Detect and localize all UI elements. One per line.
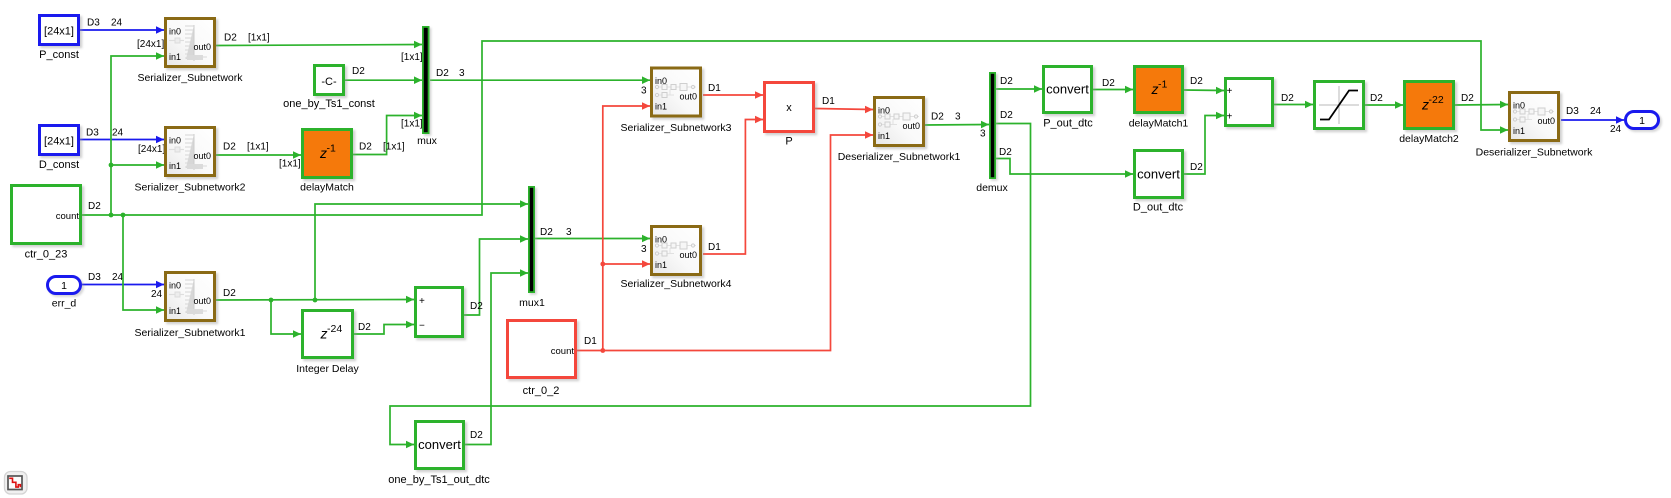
label D2 on wire Serializer_Subnetwork1 out — [223, 288, 236, 299]
svg-text:24: 24 — [112, 272, 124, 283]
wire delayMatch out to mux in2 (D2 [1x1]) — [353, 112, 422, 155]
junction dot Serializer_Subnetwork1 out net at x=271 — [269, 298, 274, 303]
convert block D_out_dtc — [1133, 151, 1186, 214]
svg-text:Serializer_Subnetwork: Serializer_Subnetwork — [137, 72, 243, 84]
wire branch ctr_0_23 net down to Serializer_Subnetwork1 in1 — [123, 215, 164, 314]
svg-text:D3: D3 — [1566, 106, 1579, 117]
svg-text:D2: D2 — [224, 33, 237, 44]
label D2 on wire Integer Delay out — [358, 322, 371, 333]
label 3 on wire mux out — [459, 68, 465, 79]
wire D_const to Serializer_Subnetwork2 in0 (D3, width 24) — [80, 136, 164, 144]
svg-text:D2: D2 — [1000, 110, 1013, 121]
wire branch ctr_0_23 net to Serializer_Subnetwork in1 and Serializer_Subnetwork2 in1 — [111, 52, 164, 215]
svg-text:one_by_Ts1_out_dtc: one_by_Ts1_out_dtc — [388, 474, 490, 486]
svg-text:x: x — [786, 102, 792, 114]
svg-text:in0: in0 — [169, 281, 181, 291]
svg-text:−: − — [419, 321, 425, 332]
convert block one_by_Ts1_out_dtc — [388, 422, 490, 487]
svg-text:[1x1]: [1x1] — [248, 33, 270, 44]
constant block one_by_Ts1_const -C- — [283, 66, 375, 111]
svg-text:ctr_0_2: ctr_0_2 — [523, 385, 560, 397]
wire D_out_dtc out up to Sum2 in2 (D2) — [1184, 112, 1224, 174]
wire branch Serializer_Subnetwork1 out up to mux1 in0 — [315, 200, 528, 300]
svg-text:D2: D2 — [1281, 93, 1294, 104]
svg-text:D2: D2 — [223, 288, 236, 299]
label [1x1] on wire delayMatch out — [383, 142, 405, 153]
wire err_d to Serializer_Subnetwork1 in0 (D3, width 24) — [82, 281, 164, 289]
wire P_const to Serializer_Subnetwork in0 (D3, width 24) — [80, 26, 164, 34]
label D2 on wire D_out_dtc out — [1190, 162, 1203, 173]
svg-text:in1: in1 — [169, 161, 181, 171]
svg-text:D2: D2 — [1000, 76, 1013, 87]
mux block mux1 — [519, 186, 545, 309]
label D3 on wire Deserializer_Subnetwork out — [1566, 106, 1579, 117]
wire Deserializer_Subnetwork1 out0 to demux in (D2 width 3) — [924, 121, 989, 129]
svg-text:count: count — [551, 346, 575, 357]
subsystem Serializer_Subnetwork2 — [135, 128, 246, 194]
svg-text:[24x1]: [24x1] — [137, 39, 164, 50]
svg-text:+: + — [419, 296, 425, 307]
convert block P_out_dtc — [1043, 67, 1095, 130]
svg-text:mux1: mux1 — [519, 297, 545, 309]
sum block Sum1 plus minus — [416, 288, 467, 341]
wire Saturation out to delayMatch2 in (D2) — [1365, 101, 1403, 109]
svg-text:D1: D1 — [708, 83, 721, 94]
counter block ctr_0_2 — [508, 321, 580, 398]
label 3 below wire near Serializer_Subnetwork4 in0 — [641, 244, 647, 255]
svg-text:D1: D1 — [822, 96, 835, 107]
output port 1 — [1626, 112, 1663, 133]
svg-text:-1: -1 — [1158, 79, 1167, 91]
svg-text:D2: D2 — [359, 142, 372, 153]
wire Serializer_Subnetwork4 out0 up to P in1 (D1) — [703, 116, 763, 254]
svg-text:Serializer_Subnetwork3: Serializer_Subnetwork3 — [621, 122, 732, 134]
wire one_by_Ts1_out_dtc convert out up to mux1 in2 (D2) — [465, 269, 528, 444]
label 3 below wire near demux in — [980, 129, 986, 140]
svg-text:+: + — [1227, 86, 1233, 97]
svg-text:in0: in0 — [655, 235, 667, 245]
junction dot ctr_0_23 net at x=123 — [121, 213, 126, 218]
label 24 below wire near output port — [1610, 124, 1622, 135]
svg-text:-24: -24 — [327, 323, 342, 335]
svg-text:D2: D2 — [1190, 76, 1203, 87]
input port err_d — [48, 277, 85, 310]
svg-text:delayMatch1: delayMatch1 — [1129, 118, 1189, 130]
label D2 on wire mux out — [436, 68, 449, 79]
svg-text:[1x1]: [1x1] — [247, 142, 269, 153]
svg-text:D2: D2 — [1461, 93, 1474, 104]
svg-text:1: 1 — [1639, 115, 1645, 127]
svg-text:D1: D1 — [584, 336, 597, 347]
label D2 on wire demux out3 — [999, 147, 1012, 158]
svg-text:[1x1]: [1x1] — [401, 119, 423, 130]
svg-text:convert: convert — [1046, 82, 1089, 97]
constant block D_const [24x1] — [39, 126, 82, 172]
svg-text:D2: D2 — [470, 301, 483, 312]
wire P_out_dtc out to delayMatch1 in (D2) — [1093, 86, 1133, 94]
svg-text:D2: D2 — [1370, 93, 1383, 104]
wire Serializer_Subnetwork out0 to mux in0 (D2 [1x1]) — [216, 41, 422, 49]
saturation block — [1315, 82, 1368, 133]
sample time legend badge — [5, 472, 28, 495]
label [1x1] below wire near mux in2 — [401, 119, 423, 130]
svg-text:Deserializer_Subnetwork: Deserializer_Subnetwork — [1476, 147, 1593, 159]
label D2 on wire delayMatch1 out — [1190, 76, 1203, 87]
wire ctr_0_23 count out, long net up and across to Deserializer_Subnetwork in1 — [82, 41, 1508, 215]
wire ctr_0_2 count out to Deserializer_Subnetwork1 in1 (D1) — [577, 131, 873, 350]
delay block delayMatch z^-1 — [300, 130, 355, 194]
label D2 on wire mux1 out — [540, 227, 553, 238]
label D1 on wire Serializer_Subnetwork3 out — [708, 83, 721, 94]
svg-text:D2: D2 — [999, 147, 1012, 158]
wire delayMatch1 out to Sum2 in1 (D2) — [1184, 87, 1224, 95]
svg-text:delayMatch2: delayMatch2 — [1399, 133, 1459, 145]
svg-text:Serializer_Subnetwork4: Serializer_Subnetwork4 — [621, 278, 732, 290]
label D1 on wire ctr_0_2 out — [584, 336, 597, 347]
svg-text:D1: D1 — [708, 242, 721, 253]
label [24x1] below wire D_const — [138, 144, 165, 155]
svg-text:3: 3 — [641, 244, 647, 255]
product block P (x) — [765, 83, 818, 148]
wire P out to Deserializer_Subnetwork1 in0 (D1) — [815, 106, 873, 114]
label 24 on wire Deserializer_Subnetwork out — [1590, 106, 1602, 117]
wire one_by_Ts1_const to mux in1 (D2) — [345, 76, 422, 84]
svg-text:delayMatch: delayMatch — [300, 182, 354, 194]
svg-text:P_const: P_const — [39, 49, 79, 61]
svg-text:[24x1]: [24x1] — [44, 136, 74, 148]
wire Integer Delay out to Sum1 minus input (D2) — [354, 321, 414, 334]
wire demux out3 to D_out_dtc convert in (D2) — [996, 159, 1133, 178]
wire Sum1 out up to mux1 in1 (D2) — [464, 235, 528, 315]
svg-text:err_d: err_d — [52, 298, 77, 310]
label [24x1] below wire P_const — [137, 39, 164, 50]
svg-text:24: 24 — [112, 128, 124, 139]
svg-text:P_out_dtc: P_out_dtc — [1043, 118, 1093, 130]
svg-text:3: 3 — [459, 68, 465, 79]
svg-text:[1x1]: [1x1] — [383, 142, 405, 153]
svg-text:D2: D2 — [358, 322, 371, 333]
svg-text:convert: convert — [418, 437, 461, 452]
svg-text:out0: out0 — [1537, 116, 1555, 126]
svg-text:out0: out0 — [679, 92, 697, 102]
wire demux out2 down and across to one_by_Ts1_out_dtc convert in (D2) — [390, 124, 1031, 449]
svg-text:Integer Delay: Integer Delay — [296, 363, 359, 375]
svg-text:demux: demux — [976, 182, 1008, 194]
delay block Integer Delay z^-24 — [296, 311, 359, 376]
delay block delayMatch2 z^-22 — [1399, 82, 1459, 146]
svg-text:in1: in1 — [655, 260, 667, 270]
label [1x1] below wire near delayMatch in — [279, 159, 301, 170]
svg-text:in0: in0 — [169, 136, 181, 146]
wire branch ctr_0_23 net to Serializer_Subnetwork2 in1 — [111, 161, 164, 169]
label D3 on wire err_d — [88, 272, 101, 283]
label D2 on wire one_by_Ts1_const out — [352, 66, 365, 77]
svg-text:24: 24 — [151, 289, 163, 300]
svg-text:D3: D3 — [88, 272, 101, 283]
wire branch ctr_0_2 net up to Serializer_Subnetwork3 in1 — [603, 102, 650, 350]
label D2 on wire demux out2 — [1000, 110, 1013, 121]
label 24 on wire P_const — [111, 18, 123, 29]
svg-text:D3: D3 — [87, 18, 100, 29]
junction dot ctr_0_2 net at Serializer_Subnetwork4 in1 branch — [600, 262, 605, 267]
svg-text:in1: in1 — [1513, 126, 1525, 136]
label 24 on wire D_const — [112, 128, 124, 139]
sum block Sum2 plus plus — [1226, 79, 1277, 130]
label D2 on wire ctr_0_23 out — [88, 201, 101, 212]
label D3 on wire P_const — [87, 18, 100, 29]
wire mux1 out to Serializer_Subnetwork4 in0 (D2 width 3) — [535, 235, 651, 243]
svg-text:24: 24 — [1610, 124, 1622, 135]
svg-text:D3: D3 — [86, 128, 99, 139]
junction dot ctr_0_23 net at Serializer_Subnetwork2 in1 branch — [109, 163, 114, 168]
wire demux out1 to P_out_dtc convert in (D2) — [996, 85, 1042, 93]
svg-text:D2: D2 — [931, 112, 944, 123]
label [1x1] on wire Serializer_Subnetwork out — [248, 33, 270, 44]
svg-text:D2: D2 — [470, 430, 483, 441]
svg-text:ctr_0_23: ctr_0_23 — [25, 249, 68, 261]
junction dot ctr_0_2 net at x=602.8 — [600, 348, 605, 353]
svg-text:1: 1 — [61, 280, 67, 292]
label D2 on wire delayMatch out — [359, 142, 372, 153]
label D2 on wire Sum1 out — [470, 301, 483, 312]
label [1x1] on wire Serializer_Subnetwork2 out — [247, 142, 269, 153]
svg-text:[1x1]: [1x1] — [401, 52, 423, 63]
svg-text:D_const: D_const — [39, 159, 79, 171]
svg-text:D2: D2 — [223, 142, 236, 153]
svg-text:[24x1]: [24x1] — [138, 144, 165, 155]
svg-text:in1: in1 — [878, 131, 890, 141]
label D2 on wire Serializer_Subnetwork out — [224, 33, 237, 44]
svg-text:-22: -22 — [1429, 94, 1444, 106]
svg-text:24: 24 — [111, 18, 123, 29]
svg-text:in0: in0 — [1513, 101, 1525, 111]
svg-text:D2: D2 — [88, 201, 101, 212]
svg-text:mux: mux — [417, 135, 438, 147]
svg-text:Serializer_Subnetwork1: Serializer_Subnetwork1 — [135, 327, 246, 339]
label D2 on wire Serializer_Subnetwork2 out — [223, 142, 236, 153]
junction dot ctr_0_23 net at x=111 — [109, 213, 114, 218]
wire delayMatch2 out to Deserializer_Subnetwork in0 (D2) — [1455, 101, 1508, 109]
counter block ctr_0_23 — [12, 186, 85, 261]
svg-text:3: 3 — [955, 112, 961, 123]
subsystem Serializer_Subnetwork — [137, 19, 243, 85]
label [1x1] below wire near mux in0 — [401, 52, 423, 63]
svg-text:Serializer_Subnetwork2: Serializer_Subnetwork2 — [135, 182, 246, 194]
svg-text:convert: convert — [1137, 167, 1180, 182]
svg-text:in1: in1 — [169, 306, 181, 316]
subsystem Serializer_Subnetwork1 — [135, 273, 246, 340]
label D1 on wire Serializer_Subnetwork4 out — [708, 242, 721, 253]
wire branch Serializer_Subnetwork1 out to Integer Delay in — [271, 300, 301, 338]
svg-text:D2: D2 — [352, 66, 365, 77]
svg-text:one_by_Ts1_const: one_by_Ts1_const — [283, 98, 375, 110]
label D1 on wire P out — [822, 96, 835, 107]
svg-text:out0: out0 — [193, 42, 211, 52]
svg-text:24: 24 — [1590, 106, 1602, 117]
label D2 on wire demux out1 — [1000, 76, 1013, 87]
wire Serializer_Subnetwork1 out0 to Sum1 plus input (D2) — [216, 296, 414, 304]
wire Deserializer_Subnetwork out0 to output port 1 (D3 width 24) — [1561, 116, 1624, 124]
svg-text:Deserializer_Subnetwork1: Deserializer_Subnetwork1 — [838, 151, 961, 163]
subsystem Serializer_Subnetwork4 — [621, 227, 732, 291]
svg-text:P: P — [785, 136, 792, 148]
constant block P_const [24x1] — [39, 16, 82, 62]
svg-text:out0: out0 — [679, 250, 697, 260]
subsystem Deserializer_Subnetwork1 — [838, 98, 961, 164]
svg-text:in0: in0 — [655, 76, 667, 86]
label D3 on wire D_const — [86, 128, 99, 139]
svg-text:out0: out0 — [193, 151, 211, 161]
svg-text:in0: in0 — [878, 106, 890, 116]
svg-text:-C-: -C- — [321, 76, 337, 88]
svg-text:D2: D2 — [540, 227, 553, 238]
label D2 on wire one_by_Ts1_out_dtc out — [470, 430, 483, 441]
label D2 on wire Deserializer_Subnetwork1 out — [931, 112, 944, 123]
label 24 below wire err_d — [151, 289, 163, 300]
wire mux out to Serializer_Subnetwork3 in0 (D2 width 3) — [430, 76, 650, 84]
svg-text:D2: D2 — [436, 68, 449, 79]
svg-text:[24x1]: [24x1] — [44, 26, 74, 38]
label 3 on wire Deserializer_Subnetwork1 out — [955, 112, 961, 123]
wire Serializer_Subnetwork2 out0 to delayMatch (D2 [1x1]) — [216, 151, 301, 159]
svg-text:+: + — [1227, 112, 1233, 123]
label D2 on wire P_out_dtc out — [1102, 78, 1115, 89]
label D2 on wire delayMatch2 out — [1461, 93, 1474, 104]
svg-text:out0: out0 — [193, 296, 211, 306]
svg-text:D2: D2 — [1190, 162, 1203, 173]
subsystem Serializer_Subnetwork3 — [621, 68, 732, 134]
delay block delayMatch1 z^-1 — [1129, 67, 1189, 130]
svg-text:in1: in1 — [655, 102, 667, 112]
svg-text:[1x1]: [1x1] — [279, 159, 301, 170]
wire Sum2 out to Saturation in (D2) — [1274, 101, 1313, 109]
svg-text:3: 3 — [641, 86, 647, 97]
wire branch ctr_0_2 net to Serializer_Subnetwork4 in1 — [603, 260, 650, 268]
svg-text:in0: in0 — [169, 27, 181, 37]
junction dot Serializer_Subnetwork1 out net at x=315 — [313, 298, 318, 303]
svg-text:D2: D2 — [1102, 78, 1115, 89]
mux block mux — [417, 26, 438, 147]
svg-text:3: 3 — [980, 129, 986, 140]
svg-text:out0: out0 — [902, 121, 920, 131]
svg-text:count: count — [56, 211, 80, 222]
wire Serializer_Subnetwork3 out0 to P in0 (D1) — [703, 91, 763, 99]
label 3 below wire near Serializer_Subnetwork3 in0 — [641, 86, 647, 97]
label 3 on wire mux1 out — [566, 227, 572, 238]
svg-text:3: 3 — [566, 227, 572, 238]
demux block demux — [976, 72, 1008, 194]
svg-text:-1: -1 — [327, 143, 336, 155]
subsystem Deserializer_Subnetwork — [1476, 93, 1593, 159]
label D2 on wire Sum2 out — [1281, 93, 1294, 104]
label 24 on wire err_d — [112, 272, 124, 283]
label D2 on wire Saturation out — [1370, 93, 1383, 104]
svg-text:in1: in1 — [169, 52, 181, 62]
svg-text:D_out_dtc: D_out_dtc — [1133, 202, 1184, 214]
